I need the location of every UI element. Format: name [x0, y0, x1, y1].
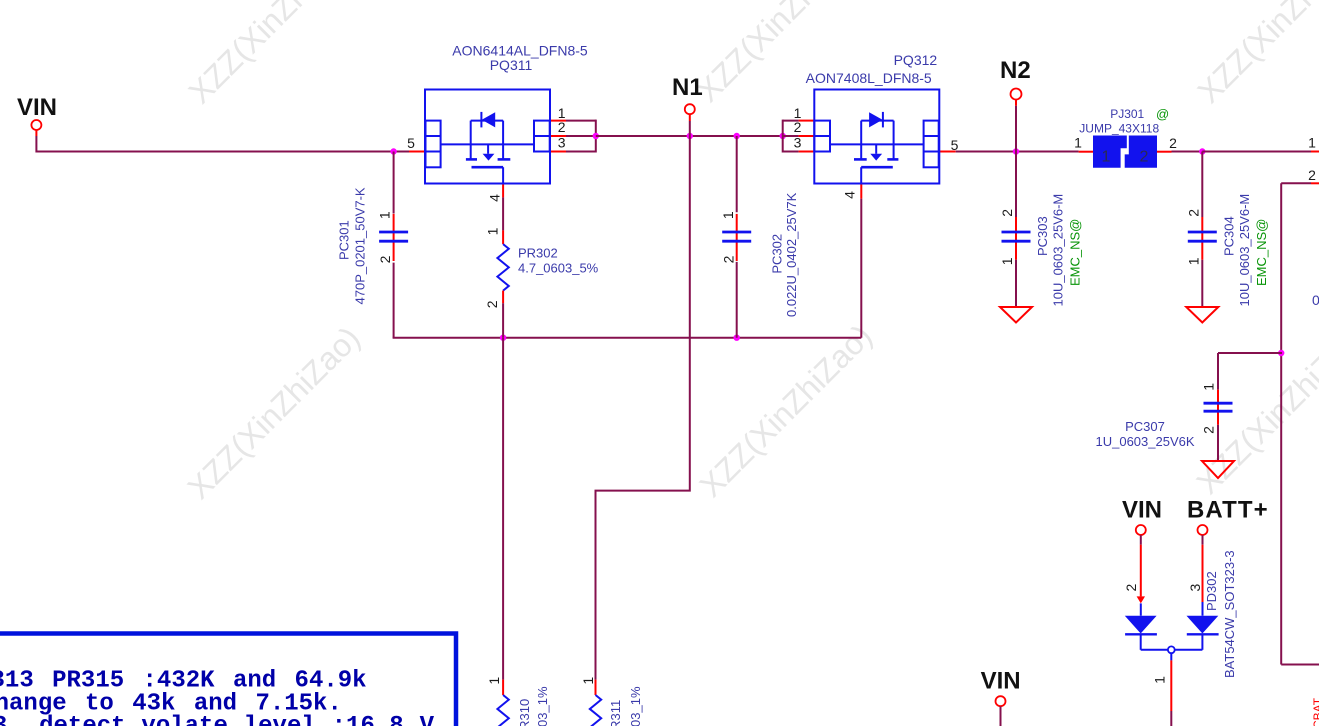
svg-text:2: 2 [558, 119, 566, 135]
svg-text:@: @ [1156, 107, 1169, 122]
svg-text:1: 1 [1308, 135, 1316, 151]
svg-text:VIN: VIN [981, 668, 1021, 695]
svg-text:1: 1 [1102, 149, 1111, 166]
svg-text:1: 1 [376, 211, 392, 219]
svg-text:2: 2 [1308, 167, 1316, 183]
svg-text:5: 5 [951, 137, 959, 153]
svg-text:10U_0603_25V6-M: 10U_0603_25V6-M [1051, 194, 1066, 307]
svg-text:1: 1 [1185, 257, 1201, 265]
svg-text:1: 1 [1074, 135, 1082, 151]
svg-text:2: 2 [484, 300, 500, 308]
svg-text:PR310: PR310 [517, 699, 532, 726]
svg-text:N2: N2 [1000, 57, 1031, 84]
svg-text:PC303: PC303 [1035, 216, 1050, 256]
svg-text:PQ312: PQ312 [894, 52, 938, 68]
svg-text:2: 2 [1169, 135, 1177, 151]
svg-text:EMC_NS@: EMC_NS@ [1254, 219, 1269, 286]
svg-text:10U_0603_25V6-M: 10U_0603_25V6-M [1237, 194, 1252, 307]
svg-text:470P_0201_50V7-K: 470P_0201_50V7-K [353, 187, 368, 304]
svg-text:3: 3 [558, 135, 566, 151]
svg-text:1: 1 [580, 677, 596, 685]
svg-text:PR302: PR302 [518, 246, 558, 261]
svg-text:ACBAT: ACBAT [1311, 697, 1319, 726]
svg-text:620K_0603_1%: 620K_0603_1% [628, 686, 643, 726]
svg-text:1: 1 [1152, 676, 1168, 684]
svg-text:13 detect volate level :16.8: 13 detect volate level :16.8 V [0, 713, 435, 726]
svg-text:AON6414AL_DFN8-5: AON6414AL_DFN8-5 [452, 42, 588, 58]
svg-text:2: 2 [1200, 426, 1216, 434]
svg-text:1: 1 [486, 677, 502, 685]
svg-text:4: 4 [841, 191, 857, 199]
svg-text:0.022U_0402_25V7K: 0.022U_0402_25V7K [784, 192, 799, 317]
svg-text:PD302: PD302 [1204, 571, 1219, 611]
svg-text:3: 3 [794, 135, 802, 151]
svg-text:5: 5 [407, 135, 415, 151]
svg-text:1U_0603_25V6K: 1U_0603_25V6K [1095, 434, 1194, 449]
svg-text:PC307: PC307 [1125, 419, 1165, 434]
svg-text:620K_0603_1%: 620K_0603_1% [535, 686, 550, 726]
svg-text:PC302: PC302 [769, 234, 784, 274]
svg-text:JUMP_43X118: JUMP_43X118 [1079, 122, 1159, 136]
svg-text:PQ311: PQ311 [490, 57, 533, 73]
svg-text:AON7408L_DFN8-5: AON7408L_DFN8-5 [806, 70, 932, 86]
svg-text:EMC_NS@: EMC_NS@ [1068, 219, 1083, 286]
svg-text:2: 2 [720, 255, 736, 263]
svg-text:2: 2 [377, 255, 393, 263]
svg-text:2: 2 [1185, 209, 1201, 217]
svg-text:3: 3 [1187, 583, 1203, 591]
svg-text:PJ301: PJ301 [1110, 107, 1144, 121]
svg-text:2: 2 [1140, 149, 1149, 166]
svg-text:VIN: VIN [17, 94, 57, 121]
svg-text:PC304: PC304 [1221, 216, 1236, 256]
svg-text:PR311: PR311 [608, 700, 623, 726]
svg-text:1: 1 [720, 211, 736, 219]
svg-text:0.1U: 0.1U [1312, 292, 1319, 308]
svg-text:4: 4 [486, 194, 502, 202]
svg-text:BATT+: BATT+ [1187, 497, 1269, 524]
svg-text:1: 1 [1200, 383, 1216, 391]
svg-text:BAT54CW_SOT323-3: BAT54CW_SOT323-3 [1222, 550, 1237, 678]
svg-text:2: 2 [1123, 583, 1139, 591]
svg-text:2: 2 [999, 209, 1015, 217]
svg-text:PC301: PC301 [337, 220, 352, 260]
svg-text:1: 1 [484, 227, 500, 235]
svg-text:VIN: VIN [1122, 497, 1162, 524]
svg-text:4.7_0603_5%: 4.7_0603_5% [518, 261, 599, 276]
svg-text:1: 1 [999, 257, 1015, 265]
svg-text:2: 2 [794, 119, 802, 135]
svg-text:N1: N1 [672, 74, 703, 101]
